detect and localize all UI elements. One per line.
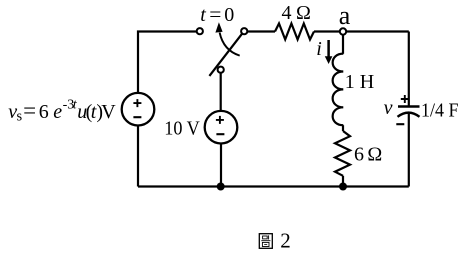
svg-text:6: 6 — [39, 101, 49, 123]
wire capacitor to bottom — [408, 114, 410, 187]
svg-text:1 H: 1 H — [345, 71, 374, 93]
label t = 0 — [200, 2, 234, 26]
svg-text:v: v — [384, 97, 393, 119]
switch blade — [209, 34, 242, 76]
wire node a down to inductor — [342, 35, 344, 54]
svg-text:V: V — [101, 101, 116, 123]
switch motion arc — [220, 33, 240, 56]
wire resistor to node a — [314, 30, 340, 32]
wire inductor to 6 ohm resistor — [342, 125, 344, 131]
label 10 V — [164, 117, 200, 139]
Vs plus sign — [133, 99, 141, 107]
node a circle — [340, 28, 346, 34]
voltage source Vs circle — [122, 93, 155, 126]
switch right terminal — [241, 28, 247, 34]
capacitor 1/4F curved plate — [398, 113, 420, 117]
current arrow i — [325, 40, 333, 64]
wire node a to capacitor branch — [346, 30, 409, 32]
svg-text:e: e — [53, 101, 62, 123]
svg-text:1/4 F: 1/4 F — [421, 100, 459, 122]
svg-text:=: = — [23, 98, 36, 123]
label 4 ohm — [282, 2, 311, 24]
wire right vertical to capacitor — [408, 32, 410, 107]
svg-text:6: 6 — [354, 144, 364, 166]
label 1 H — [345, 71, 374, 93]
wire switch right to resistor — [247, 30, 275, 32]
svg-text:s: s — [17, 108, 23, 124]
capacitor 1/4F top plate — [398, 105, 420, 107]
svg-text:=: = — [209, 2, 221, 26]
svg-text:10 V: 10 V — [164, 117, 200, 139]
svg-text:a: a — [339, 1, 351, 30]
label vs = 6 e^-3t u(t)V — [8, 97, 116, 124]
svg-text:4: 4 — [282, 2, 292, 24]
capacitor minus sign — [396, 123, 404, 125]
caption number 2 — [280, 229, 291, 253]
wire below Vs — [137, 126, 139, 187]
svg-text:2: 2 — [280, 229, 291, 253]
wire top-left horizontal and left vertical — [138, 32, 197, 93]
10V plus sign — [216, 116, 224, 124]
switch left terminal — [197, 28, 203, 34]
resistor 4 ohm zigzag — [275, 24, 314, 40]
bottom wire — [138, 185, 409, 187]
label 6 ohm — [354, 144, 382, 166]
resistor 6 ohm zigzag — [335, 131, 350, 176]
wire switch bottom to 10V source — [220, 73, 222, 111]
Vs minus sign — [133, 116, 141, 118]
svg-text:Ω: Ω — [296, 2, 311, 24]
svg-text:0: 0 — [224, 4, 234, 26]
svg-text:t: t — [200, 4, 206, 26]
voltage source 10V circle — [205, 111, 238, 144]
label 1/4 F — [421, 100, 459, 122]
10V minus sign — [216, 133, 224, 135]
caption figure 2 glyph — [259, 234, 272, 249]
junction dot below 6 ohm — [339, 183, 347, 191]
capacitor plus sign — [401, 95, 409, 103]
svg-text:i: i — [316, 38, 322, 60]
label a — [339, 1, 351, 30]
svg-text:Ω: Ω — [367, 144, 382, 166]
switch arrowhead — [215, 22, 222, 32]
wire below 10V — [220, 144, 222, 187]
switch bottom terminal — [218, 67, 224, 73]
inductor 1H coil — [333, 54, 344, 126]
junction dot below 10V — [217, 183, 225, 191]
label v across capacitor — [384, 97, 393, 119]
label i — [316, 38, 322, 60]
wire 6 ohm to bottom — [342, 176, 344, 187]
